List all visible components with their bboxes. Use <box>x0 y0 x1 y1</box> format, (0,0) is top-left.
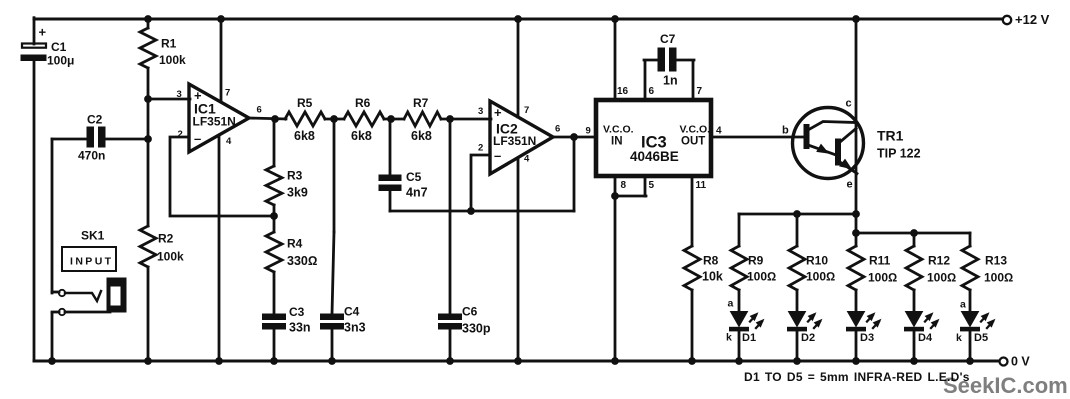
svg-text:C6: C6 <box>462 305 478 319</box>
svg-text:b: b <box>782 125 789 137</box>
svg-text:9: 9 <box>586 126 591 137</box>
svg-text:4: 4 <box>716 126 722 137</box>
svg-text:INPUT: INPUT <box>70 256 114 268</box>
svg-text:OUT: OUT <box>681 136 705 148</box>
svg-text:R11: R11 <box>869 254 891 268</box>
svg-text:3: 3 <box>177 89 182 100</box>
svg-text:2: 2 <box>178 129 183 140</box>
svg-text:e: e <box>847 179 853 191</box>
svg-text:a: a <box>728 298 734 310</box>
svg-text:1n: 1n <box>663 74 678 88</box>
svg-text:6: 6 <box>257 105 262 116</box>
svg-text:c: c <box>846 98 852 110</box>
svg-text:R5: R5 <box>297 96 313 110</box>
svg-text:R4: R4 <box>287 237 303 251</box>
svg-text:TR1: TR1 <box>877 128 904 144</box>
svg-text:6k8: 6k8 <box>351 129 372 143</box>
svg-text:C1: C1 <box>51 40 67 54</box>
svg-text:LF351N: LF351N <box>193 115 236 129</box>
svg-text:LF351N: LF351N <box>493 134 536 148</box>
svg-text:C5: C5 <box>406 170 422 184</box>
svg-text:7: 7 <box>524 105 529 116</box>
svg-text:D2: D2 <box>801 332 815 344</box>
svg-text:2: 2 <box>478 143 483 154</box>
svg-text:16: 16 <box>617 86 629 97</box>
svg-text:33n: 33n <box>289 321 311 335</box>
svg-text:R7: R7 <box>413 96 429 110</box>
svg-text:6k8: 6k8 <box>294 129 315 143</box>
svg-text:330Ω: 330Ω <box>287 254 317 268</box>
svg-text:D1: D1 <box>742 332 756 344</box>
svg-text:a: a <box>960 299 966 311</box>
svg-text:3n3: 3n3 <box>344 321 366 335</box>
svg-text:6k8: 6k8 <box>411 129 432 143</box>
svg-text:k: k <box>726 332 732 344</box>
svg-text:4: 4 <box>524 154 530 165</box>
svg-text:SeekIC.com: SeekIC.com <box>943 373 1068 398</box>
svg-text:330p: 330p <box>462 322 491 336</box>
svg-text:C3: C3 <box>289 305 305 319</box>
svg-text:470n: 470n <box>78 149 105 163</box>
svg-text:D4: D4 <box>918 332 933 344</box>
svg-text:5: 5 <box>649 180 655 191</box>
svg-text:7: 7 <box>697 86 703 97</box>
svg-text:100Ω: 100Ω <box>806 270 835 284</box>
svg-text:100Ω: 100Ω <box>747 270 776 284</box>
svg-text:0 V: 0 V <box>1011 355 1030 369</box>
svg-text:SK1: SK1 <box>81 229 105 243</box>
svg-text:R8: R8 <box>703 254 719 268</box>
svg-text:C2: C2 <box>87 113 103 127</box>
svg-text:100Ω: 100Ω <box>927 271 956 285</box>
svg-text:R13: R13 <box>985 254 1007 268</box>
svg-text:D1 TO D5 = 5mm INFRA-RED L.E.D: D1 TO D5 = 5mm INFRA-RED L.E.D's <box>744 370 970 384</box>
svg-text:4: 4 <box>226 136 232 147</box>
svg-text:4n7: 4n7 <box>406 186 428 200</box>
svg-text:100μ: 100μ <box>47 54 74 68</box>
svg-text:3k9: 3k9 <box>287 186 308 200</box>
svg-text:+: + <box>39 25 47 40</box>
svg-text:R2: R2 <box>158 232 174 246</box>
svg-text:6: 6 <box>649 86 655 97</box>
svg-text:4046BE: 4046BE <box>630 149 679 164</box>
svg-text:+12 V: +12 V <box>1015 12 1050 27</box>
svg-text:R10: R10 <box>806 254 828 268</box>
svg-text:–: – <box>194 131 201 146</box>
svg-text:7: 7 <box>225 88 230 99</box>
svg-text:C4: C4 <box>344 305 360 319</box>
svg-text:R3: R3 <box>287 169 303 183</box>
svg-text:V.C.O.: V.C.O. <box>680 124 711 136</box>
svg-text:V.C.O.: V.C.O. <box>603 124 634 136</box>
svg-text:TIP 122: TIP 122 <box>877 147 921 161</box>
svg-text:R9: R9 <box>748 254 764 268</box>
svg-text:R1: R1 <box>161 37 177 51</box>
svg-text:R6: R6 <box>355 96 371 110</box>
svg-text:C7: C7 <box>660 32 676 46</box>
svg-text:100Ω: 100Ω <box>984 271 1013 285</box>
svg-text:11: 11 <box>696 180 707 191</box>
svg-text:10k: 10k <box>702 270 723 284</box>
svg-text:R12: R12 <box>928 254 950 268</box>
svg-text:100Ω: 100Ω <box>868 271 897 285</box>
svg-text:100k: 100k <box>159 53 186 67</box>
svg-text:100k: 100k <box>157 250 184 264</box>
svg-text:–: – <box>494 148 501 163</box>
svg-text:k: k <box>956 332 962 344</box>
svg-text:8: 8 <box>621 180 627 191</box>
svg-text:6: 6 <box>555 124 560 135</box>
svg-text:D5: D5 <box>974 332 988 344</box>
svg-text:IN: IN <box>611 136 623 148</box>
svg-text:D3: D3 <box>860 332 874 344</box>
svg-text:3: 3 <box>478 106 483 117</box>
svg-text:+: + <box>494 105 502 120</box>
